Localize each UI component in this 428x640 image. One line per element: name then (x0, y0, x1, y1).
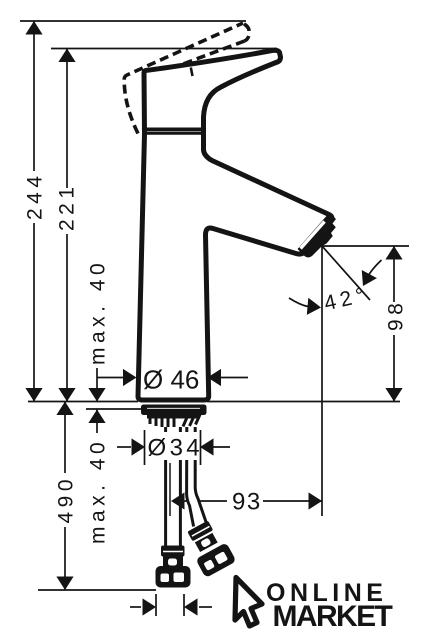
svg-text:Ø34: Ø34 (148, 435, 200, 462)
svg-text:221: 221 (56, 182, 79, 231)
svg-text:93: 93 (232, 489, 262, 516)
svg-text:98: 98 (385, 299, 408, 331)
svg-text:max. 40: max. 40 (87, 438, 110, 544)
svg-text:max. 40: max. 40 (87, 259, 110, 365)
svg-text:490: 490 (55, 475, 78, 524)
svg-text:244: 244 (24, 171, 47, 220)
svg-text:Ø 46: Ø 46 (143, 365, 199, 395)
svg-text:MARKET: MARKET (273, 600, 393, 633)
